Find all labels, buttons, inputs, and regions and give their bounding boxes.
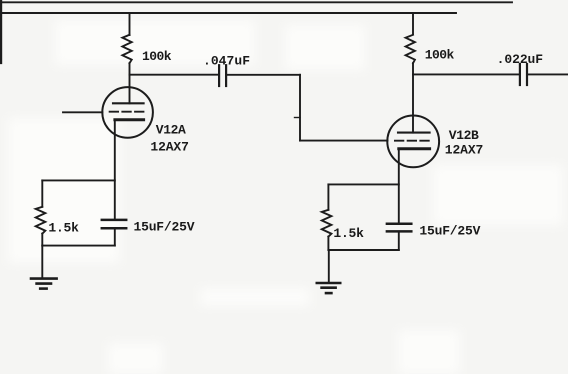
node: V12A plate / coupling junction [130, 74, 218, 76]
wire: C3 to right edge (output) [529, 73, 568, 75]
pin: V12A grid (dashed) [110, 111, 146, 113]
pin: V12B cathode bar [399, 147, 430, 150]
wire: V12A grid lead (input stub) [63, 111, 102, 113]
wire: C4 bottom to bottom rail [398, 231, 400, 250]
wire: R4 to bottom rail [327, 237, 329, 250]
wire: rail to R1 [129, 13, 131, 35]
wire: R1 to plate of V12A [129, 63, 131, 103]
wire: bottom rail to ground 1 [41, 246, 43, 279]
ground (V12B cathode network) [317, 283, 340, 293]
resistor R3 100k (plate load V12B) [406, 35, 415, 63]
svg-text:100k: 100k [425, 47, 455, 62]
label .022uF (C3) [497, 52, 544, 67]
label 12AX7 (V12B) [445, 142, 484, 157]
wire: left edge vertical (cropped) [0, 0, 2, 63]
wire: cathode network top rail (left) [42, 179, 115, 181]
capacitor C3 .022uF [520, 64, 527, 85]
svg-text:1.5k: 1.5k [333, 226, 364, 241]
capacitor C4 15uF/25V [387, 224, 411, 232]
svg-text:15uF/25V: 15uF/25V [419, 224, 480, 239]
label 100k (R3) [425, 47, 455, 62]
wire: cathode network bottom rail (right) [328, 249, 398, 251]
svg-text:.047uF: .047uF [203, 53, 250, 68]
wire: second supply rail [0, 12, 456, 14]
resistor R4 1.5k (cathode V12B) [322, 210, 332, 237]
wire: top supply rail [0, 1, 512, 3]
wire: top rail to R2 [41, 180, 43, 206]
node: V12B plate / output junction [413, 73, 518, 75]
wire: R2 to bottom rail [41, 234, 43, 246]
label V12A [156, 123, 186, 138]
wire: V12A cathode down to C2 [114, 120, 116, 220]
pin: V12B grid (dashed) [395, 140, 431, 142]
label 15uF/25V (C4) [419, 224, 480, 239]
wire: R3 to plate of V12B [412, 63, 414, 132]
label 15uF/25V (C2) [134, 220, 195, 235]
tube V12A envelope [102, 87, 153, 138]
svg-text:15uF/25V: 15uF/25V [134, 220, 195, 235]
wire: cathode network top rail (right) [328, 183, 398, 185]
label 1.5k (R2) [48, 221, 79, 236]
resistor R1 100k (plate load V12A) [122, 35, 131, 63]
svg-text:.022uF: .022uF [497, 52, 544, 67]
wire: C2 bottom to bottom rail [114, 228, 116, 245]
wire: cathode network bottom rail (left) [42, 245, 115, 247]
label .047uF (C1) [203, 53, 250, 68]
pin: V12A plate bar [113, 102, 144, 104]
svg-text:12AX7: 12AX7 [150, 140, 189, 155]
wire: bottom rail to ground 2 [328, 250, 330, 283]
wire: top rail to R4 [327, 184, 329, 209]
wire: C1 to corner [228, 74, 300, 76]
ground (V12A cathode network) [31, 279, 57, 289]
svg-text:100k: 100k [142, 49, 172, 64]
svg-text:V12A: V12A [156, 123, 186, 138]
wire: vertical down to V12B grid level [299, 75, 301, 141]
pin: V12B plate bar [398, 132, 430, 134]
label V12B [449, 128, 479, 143]
resistor R2 1.5k (cathode V12A) [36, 207, 46, 234]
capacitor C1 .047uF [219, 65, 226, 86]
label 1.5k (R4) [333, 226, 364, 241]
capacitor C2 15uF/25V [102, 220, 126, 228]
svg-text:1.5k: 1.5k [48, 221, 79, 236]
label 12AX7 (V12A) [150, 140, 189, 155]
pin: V12A cathode bar [115, 118, 144, 121]
wire: to grid of V12B [300, 140, 388, 142]
svg-text:12AX7: 12AX7 [445, 142, 484, 157]
wire: V12B cathode down to C4 [398, 149, 400, 224]
label 100k (R1) [142, 49, 172, 64]
node: small tick on coupling wire [295, 117, 301, 119]
tube V12B envelope [387, 115, 439, 167]
wire: rail to R3 [412, 13, 414, 34]
svg-text:V12B: V12B [449, 128, 479, 143]
